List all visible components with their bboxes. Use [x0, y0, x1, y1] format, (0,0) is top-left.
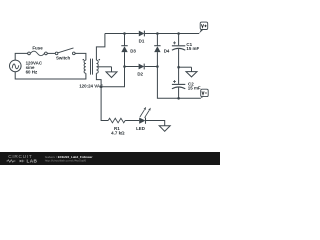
- svg-text:Switch: Switch: [56, 56, 71, 61]
- resistor R1: [108, 118, 125, 123]
- wire secondary bottom: [96, 73, 108, 120]
- ground LED: [159, 126, 170, 132]
- transformer T1: [83, 59, 101, 75]
- flag V+: [199, 22, 208, 33]
- junction node D3 anode / D2 anode: [123, 65, 126, 68]
- flag V-: [201, 89, 209, 98]
- label R1 4.7 kOhm: [111, 126, 125, 136]
- diode D3: [121, 34, 127, 67]
- switch SW1: [55, 48, 75, 55]
- svg-text:D4: D4: [164, 49, 170, 54]
- wire transformer primary bottom to source: [15, 72, 86, 79]
- svg-text:LAB: LAB: [27, 159, 38, 164]
- wire source top to fuse: [15, 53, 28, 60]
- junction node C1 top / V+ rail: [177, 32, 180, 35]
- mid rail with diode D2: [125, 66, 139, 68]
- LED: [139, 107, 151, 124]
- footer bar: [0, 152, 220, 165]
- wire LED to ground: [146, 121, 165, 126]
- svg-text:15 mF: 15 mF: [188, 85, 201, 90]
- wire D4 node down to V- rail: [157, 67, 201, 99]
- wire top rail left: [105, 33, 139, 35]
- svg-text:15 mF: 15 mF: [186, 46, 199, 51]
- wire top rail right: [145, 33, 199, 35]
- label 120VAC sine 60 Hz: [26, 61, 43, 75]
- junction node D3 cathode / AC1 rail: [123, 32, 126, 35]
- junction node secondary bottom / R1 branch: [100, 85, 103, 88]
- svg-text:http://circuitlab.com/c/4rp5qd: http://circuitlab.com/c/4rp5qd6: [45, 159, 87, 163]
- fuse F1: [28, 51, 48, 56]
- junction node C1-C2 / ground tee: [177, 66, 180, 69]
- wire AC2 branch to mid rail: [101, 67, 124, 87]
- svg-text:60 Hz: 60 Hz: [26, 69, 38, 74]
- diode D4: [154, 34, 160, 67]
- label C2 15 mF: [188, 81, 201, 90]
- wire fuse to switch: [48, 52, 56, 54]
- svg-text:D1: D1: [139, 39, 145, 44]
- label C1 15 mF: [186, 42, 199, 51]
- svg-text:D2: D2: [137, 72, 143, 77]
- svg-text:Fuse: Fuse: [32, 45, 43, 50]
- wire R1 to LED: [125, 120, 139, 122]
- wire secondary top to bridge top rail: [96, 34, 105, 61]
- wire to ground tee: [179, 66, 192, 68]
- ground right: [186, 67, 197, 77]
- svg-text:4.7 kΩ: 4.7 kΩ: [111, 130, 125, 135]
- wire mid rail right segment: [145, 66, 158, 68]
- voltage source V1: [10, 60, 22, 72]
- wire switch to transformer primary top: [75, 53, 86, 60]
- junction node C2 bottom / V- rail: [177, 97, 180, 100]
- diode D1: [139, 31, 145, 37]
- capacitor C1: [172, 34, 185, 68]
- svg-text:D3: D3: [130, 48, 136, 53]
- junction node D4 cathode / V+ rail: [156, 32, 159, 35]
- diode D2: [139, 64, 145, 70]
- svg-text:LED: LED: [136, 126, 146, 131]
- capacitor C2: [172, 67, 185, 98]
- center tap wire: [97, 66, 111, 68]
- junction node D2 cathode / D4 anode: [156, 65, 159, 68]
- ground center tap: [106, 67, 117, 78]
